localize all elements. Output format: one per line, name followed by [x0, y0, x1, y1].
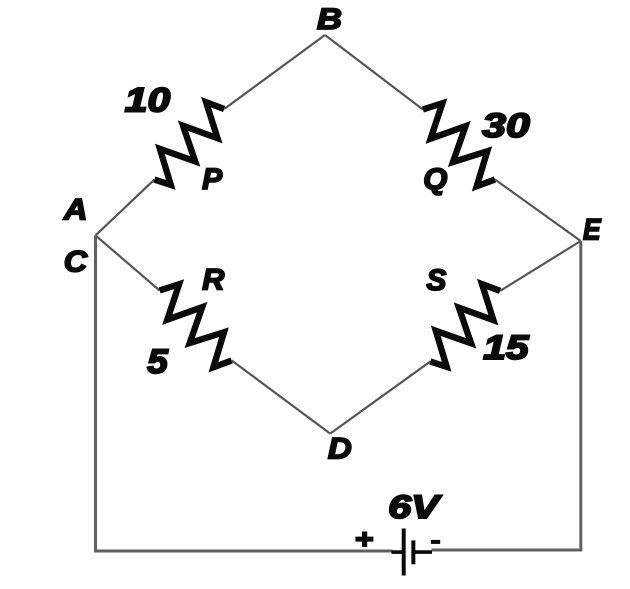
svg-text:R: R	[202, 264, 224, 297]
wire right vertical and bottom from E to battery	[432, 241, 581, 550]
wire left vertical and bottom from C to battery	[96, 235, 393, 551]
wire resistor S to E	[500, 241, 581, 291]
svg-text:B: B	[317, 2, 342, 35]
svg-text:S: S	[426, 264, 446, 297]
svg-text:6V: 6V	[388, 489, 442, 525]
resistor S	[430, 284, 500, 367]
battery 6V right lead	[415, 550, 432, 554]
svg-text:10: 10	[125, 81, 171, 119]
svg-text:C: C	[64, 245, 88, 279]
resistor Q	[423, 103, 495, 186]
resistor R	[160, 284, 232, 367]
svg-text:E: E	[583, 212, 602, 246]
battery 6V short plate (-)	[411, 540, 415, 564]
svg-text:15: 15	[483, 328, 530, 366]
wire A to resistor P	[96, 180, 155, 236]
svg-text:5: 5	[147, 342, 169, 380]
svg-text:30: 30	[482, 107, 530, 145]
wire resistor P to B	[224, 35, 325, 109]
wire resistor Q to E	[495, 180, 581, 242]
wire B to resistor Q	[325, 35, 423, 110]
battery 6V left lead	[392, 550, 403, 554]
svg-text:P: P	[202, 163, 223, 196]
wire D to resistor S	[330, 362, 430, 434]
svg-text:Q: Q	[423, 163, 447, 196]
battery 6V long plate (+)	[402, 529, 406, 576]
wire C to resistor R	[96, 235, 160, 290]
svg-text:A: A	[63, 193, 88, 227]
battery minus sign	[431, 540, 440, 544]
resistor P	[154, 102, 224, 185]
wire resistor R to D	[232, 361, 331, 434]
battery plus sign	[355, 532, 373, 547]
svg-text:D: D	[328, 431, 352, 465]
